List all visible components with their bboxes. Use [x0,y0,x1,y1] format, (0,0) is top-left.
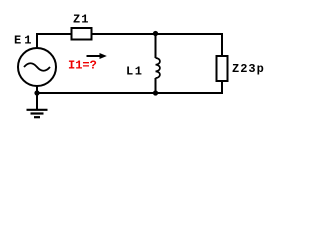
svg-text:L1: L1 [126,65,143,79]
svg-text:Z1: Z1 [73,12,89,26]
svg-text:E1: E1 [14,34,34,48]
svg-text:I1=?: I1=? [68,59,97,73]
svg-text:Z23p: Z23p [232,62,265,76]
